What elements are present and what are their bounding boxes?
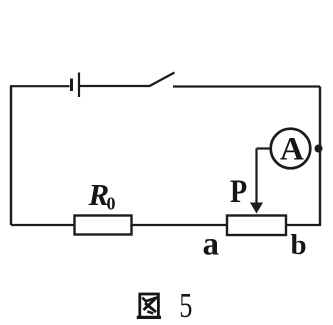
svg-text:a: a [203, 227, 220, 263]
svg-text:5: 5 [179, 285, 192, 325]
svg-text:A: A [280, 132, 304, 168]
svg-text:b: b [291, 229, 307, 261]
svg-text:0: 0 [107, 194, 116, 214]
svg-text:P: P [230, 173, 247, 210]
